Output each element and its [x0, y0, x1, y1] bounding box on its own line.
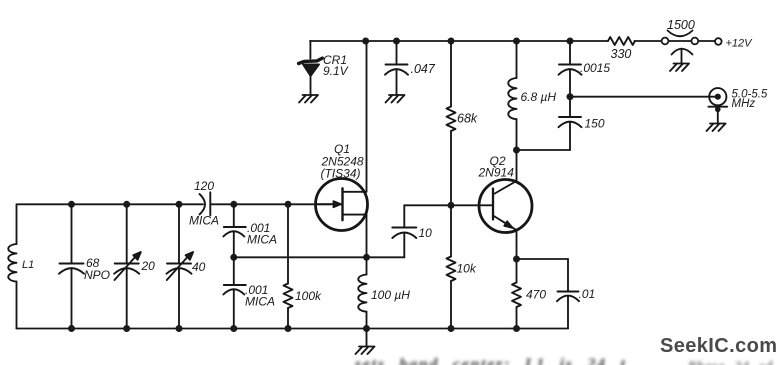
variable capacitor 40 — [167, 204, 194, 328]
capacitor 68 NPO — [59, 204, 84, 328]
wire 10 cap to Q2 base — [404, 204, 493, 206]
svg-text:40: 40 — [192, 260, 206, 274]
svg-text:MHz: MHz — [732, 98, 756, 110]
capacitor .001 MICA lower — [223, 257, 246, 328]
junction node: Q2 base — [448, 202, 455, 209]
junction node: 20 top — [123, 201, 130, 208]
capacitor .047 — [385, 41, 408, 94]
capacitor 150 — [559, 100, 582, 150]
wire 150/6.8uH node horizontal — [517, 149, 571, 151]
svg-text:MICA: MICA — [189, 214, 219, 228]
resistor 470 — [512, 259, 521, 329]
junction node: 100k top — [285, 201, 292, 208]
JFET Q1 2N5248 — [316, 41, 368, 257]
junction node: 68 NPO bottom — [68, 325, 75, 332]
svg-text:10k: 10k — [457, 262, 477, 276]
junction node: .0015 on top rail — [567, 38, 574, 45]
junction node: 10k bottom — [448, 325, 455, 332]
wire top rail right of 330 resistor — [635, 40, 662, 42]
svg-text:L1: L1 — [22, 259, 34, 271]
junction node: 40 bottom — [176, 325, 183, 332]
junction node: Q1 drain on top rail — [362, 38, 369, 45]
svg-text:MICA: MICA — [245, 295, 275, 309]
wire bottom ground rail — [17, 328, 569, 330]
wire feedthrough ground lead — [681, 49, 683, 63]
ground under CR1 — [299, 95, 318, 103]
junction node: 40 top — [176, 201, 183, 208]
svg-text:MICA: MICA — [247, 233, 277, 247]
variable capacitor 20 — [114, 204, 141, 328]
junction node: 6.8uH on top rail — [513, 38, 520, 45]
resistor 330 — [608, 37, 635, 45]
capacitor .001 MICA upper — [223, 204, 246, 257]
ground under connector — [707, 124, 726, 132]
svg-text:330: 330 — [611, 47, 632, 61]
zener diode CR1 9.1V — [299, 41, 323, 94]
feedthrough capacitor 1500: left terminal circle — [662, 38, 669, 45]
wire tank top rail (gate rail) — [17, 203, 204, 205]
svg-text:.047: .047 — [411, 62, 436, 76]
capacitor .0015 — [559, 41, 582, 94]
svg-text:68k: 68k — [457, 112, 478, 126]
wire middle (Q1 source node) — [234, 256, 404, 258]
wire between feedthrough circles — [669, 40, 692, 42]
feedthrough capacitor 1500: lower plate arc — [672, 49, 693, 55]
svg-text:100k: 100k — [295, 289, 322, 303]
blurred caption right — [688, 358, 773, 365]
resistor 100k — [284, 204, 293, 328]
wire output line to connector — [570, 96, 716, 98]
svg-text:NPO: NPO — [84, 268, 110, 282]
svg-text:9.1V: 9.1V — [323, 64, 349, 78]
junction node: Q1 source — [363, 254, 370, 261]
junction node: Q2 emitter — [513, 256, 520, 263]
junction node: .047 on top rail — [393, 38, 400, 45]
svg-text:6.8 µH: 6.8 µH — [521, 90, 557, 104]
feedthrough capacitor 1500: right terminal circle — [691, 38, 698, 45]
wire ground stub below rail — [366, 329, 368, 346]
inductor 100uH — [358, 257, 366, 328]
svg-text:100 µH: 100 µH — [371, 288, 410, 302]
ground under 1500 — [670, 64, 689, 72]
svg-text:10: 10 — [419, 226, 433, 240]
inductor 6.8uH — [508, 41, 516, 147]
junction node: 68k on top rail — [448, 38, 455, 45]
inductor L1 — [8, 204, 16, 328]
junction node: 100k bottom — [285, 325, 292, 332]
svg-text:1500: 1500 — [667, 18, 695, 32]
ground main — [356, 347, 375, 355]
junction node: 100uH bottom — [363, 325, 370, 332]
resistor 10k — [447, 205, 456, 328]
svg-text:.0015: .0015 — [580, 61, 610, 75]
watermark SeekIC.com — [660, 335, 777, 358]
capacitor .01 — [557, 259, 579, 329]
coax output connector — [708, 88, 727, 122]
svg-text:20: 20 — [141, 259, 156, 273]
junction node: 20 bottom — [123, 325, 130, 332]
junction node: .001 gate top — [230, 201, 237, 208]
ground under .047 — [386, 95, 405, 103]
BJT Q2 2N914 — [479, 150, 532, 259]
svg-text:470: 470 — [526, 288, 546, 302]
terminal +12V — [715, 38, 722, 45]
svg-text:(TIS34): (TIS34) — [321, 167, 361, 181]
resistor 68k — [447, 41, 456, 204]
svg-text:2N914: 2N914 — [478, 166, 515, 180]
junction node: Q2 collector — [513, 147, 520, 154]
svg-text:120: 120 — [194, 179, 214, 193]
capacitor 10 — [392, 205, 416, 257]
svg-text:150: 150 — [585, 117, 605, 131]
junction node: output tap — [567, 93, 574, 100]
blurred caption — [355, 356, 627, 365]
svg-text:+12V: +12V — [726, 38, 754, 50]
wire emitter to .01 — [517, 258, 569, 260]
junction node: .001 junction — [230, 254, 237, 261]
junction node: 68 NPO top — [68, 201, 75, 208]
capacitor 120 MICA (series) — [200, 192, 211, 215]
feedthrough capacitor 1500: upper plate arc — [668, 31, 693, 37]
svg-text:.01: .01 — [579, 287, 596, 301]
wire top supply rail — [310, 40, 608, 42]
wire feedthrough to +12V terminal — [699, 40, 715, 42]
wire gate rail right of 120 cap — [211, 203, 331, 205]
junction node: 470 bottom — [513, 325, 520, 332]
junction node: .001 bottom — [230, 325, 237, 332]
